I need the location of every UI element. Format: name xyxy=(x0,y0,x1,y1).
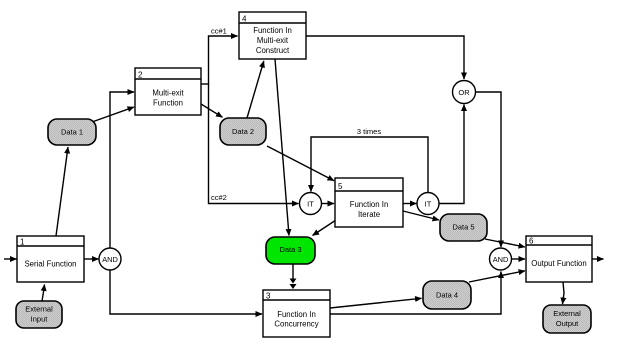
box 1 Serial Function xyxy=(17,236,84,282)
wire Data 2 to Function in Multi-exit Construct xyxy=(247,61,264,118)
svg-text:cc#2: cc#2 xyxy=(211,193,227,202)
wire cc#1 branch to Function in Multi-exit Construct xyxy=(209,36,238,85)
node OR junction xyxy=(453,81,476,104)
svg-text:1: 1 xyxy=(20,238,25,247)
svg-text:3: 3 xyxy=(266,292,271,301)
svg-text:Function In: Function In xyxy=(253,26,292,35)
data store Data 4 xyxy=(423,281,471,309)
box 2 Multi-exit Function xyxy=(135,68,201,115)
data store External Output xyxy=(543,305,591,333)
box 3 Function in Concurrency xyxy=(263,290,330,337)
wire Function in Concurrency to AND right bottom xyxy=(330,272,501,315)
wire Data 1 to Multi-exit Function xyxy=(92,107,134,122)
wire right IT circle to OR circle xyxy=(440,105,465,204)
wire Serial Function to AND junction xyxy=(84,258,99,260)
data store Data 5 xyxy=(440,214,487,241)
svg-text:Construct: Construct xyxy=(256,46,290,55)
wire Data 4 to Output Function xyxy=(469,271,525,282)
svg-text:Input: Input xyxy=(31,315,49,324)
wire AND right to Output Function xyxy=(512,258,526,260)
node AND left junction xyxy=(99,248,121,270)
svg-text:External: External xyxy=(25,305,53,314)
data store External Input xyxy=(16,301,62,328)
svg-text:4: 4 xyxy=(242,15,247,24)
svg-text:AND: AND xyxy=(493,255,509,264)
wire OR circle to AND junction right xyxy=(476,92,502,247)
wire Output Function to edge output xyxy=(592,258,604,260)
wire Multi-exit Function to Data 2 xyxy=(201,104,223,117)
svg-text:Data 2: Data 2 xyxy=(232,127,254,136)
svg-text:5: 5 xyxy=(338,182,343,191)
svg-text:Data 5: Data 5 xyxy=(452,223,474,232)
svg-text:Function In: Function In xyxy=(277,310,316,319)
data store Data 1 xyxy=(48,119,96,145)
wire Multi-exit Function exit branch trunk xyxy=(201,83,209,85)
svg-text:Multi-exit: Multi-exit xyxy=(257,36,289,45)
wire Data 3 to Function in Concurrency double arrow xyxy=(292,264,294,283)
svg-text:Function: Function xyxy=(153,99,183,108)
svg-text:External: External xyxy=(553,309,581,318)
wire Data 5 to Output Function xyxy=(485,239,525,247)
box 4 Function in Multi-exit Construct xyxy=(239,12,306,59)
svg-text:Serial Function: Serial Function xyxy=(24,259,76,268)
wire Serial Function to Data 1 xyxy=(56,147,68,236)
box 6 Output Function xyxy=(526,236,592,282)
svg-text:cc#1: cc#1 xyxy=(211,27,227,36)
svg-text:Data 4: Data 4 xyxy=(436,291,458,300)
wire edge-input to Serial Function xyxy=(4,258,17,260)
wire Function in Multi-exit Construct to OR circle xyxy=(306,36,464,79)
wire Function in Iterate to Data 3 xyxy=(313,220,337,236)
wire IT circle to Function in Iterate xyxy=(322,203,335,205)
wire Output Function to External Output xyxy=(563,282,565,304)
wire Function in Iterate to right IT circle xyxy=(403,203,417,205)
svg-text:IT: IT xyxy=(425,199,432,208)
node IT left circle xyxy=(300,193,322,215)
svg-text:AND: AND xyxy=(102,255,118,264)
svg-text:Data 3: Data 3 xyxy=(279,245,301,254)
svg-text:3 times: 3 times xyxy=(357,127,381,136)
svg-text:Data 1: Data 1 xyxy=(61,128,83,137)
wire cc#2 branch to IT circle xyxy=(209,84,299,204)
svg-text:Concurrency: Concurrency xyxy=(274,320,318,329)
wire Data 2 to Function in Iterate xyxy=(267,146,334,181)
wire Function in Iterate to Data 5 xyxy=(403,211,439,220)
node AND right junction xyxy=(490,248,512,270)
svg-text:Function In: Function In xyxy=(350,200,389,209)
svg-text:Multi-exit: Multi-exit xyxy=(152,89,184,98)
wire 3-times iteration loop xyxy=(311,137,428,193)
node IT right circle xyxy=(417,193,439,215)
data store Data 3 green xyxy=(266,237,315,264)
wire Function in Multi-exit Construct to Data 3 xyxy=(275,59,289,236)
wire AND junction up to Multi-exit Function xyxy=(110,92,134,248)
wire Function in Concurrency to Data 4 xyxy=(330,298,422,308)
svg-text:Iterate: Iterate xyxy=(358,210,380,219)
wire AND junction down to Function in Concurrency xyxy=(110,270,262,314)
wire External Input to Serial Function xyxy=(42,285,45,302)
svg-text:Output: Output xyxy=(556,319,579,328)
svg-text:2: 2 xyxy=(138,71,143,80)
data store Data 2 xyxy=(220,118,266,145)
svg-text:Output Function: Output Function xyxy=(531,259,586,268)
svg-text:IT: IT xyxy=(307,199,314,208)
svg-text:OR: OR xyxy=(458,88,470,97)
svg-text:6: 6 xyxy=(529,237,534,246)
box 5 Function in Iterate xyxy=(335,178,403,227)
